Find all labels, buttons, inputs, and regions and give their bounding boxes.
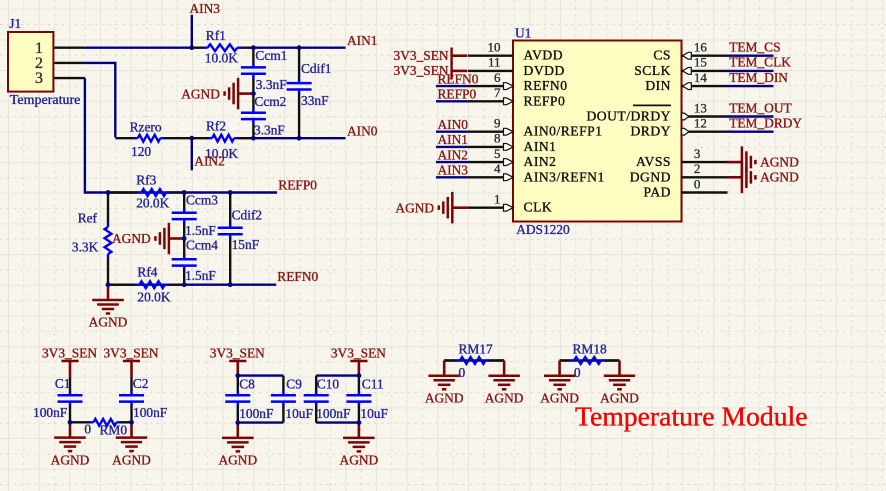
svg-text:RM17: RM17: [459, 342, 494, 357]
ground AGND right of RM17: [485, 361, 524, 406]
svg-text:REFN0: REFN0: [524, 78, 568, 93]
wire AIN2 stub: [191, 138, 193, 170]
svg-text:AIN1: AIN1: [524, 139, 557, 154]
wire REFP0 row left: [108, 191, 230, 193]
wire net AIN0 at U1: [436, 130, 468, 132]
power port 3V3_SEN at C2: [103, 345, 158, 377]
junction Cdif1 bottom: [297, 136, 302, 141]
pin 5 AIN2: [468, 146, 557, 169]
svg-text:100nF: 100nF: [133, 405, 167, 420]
capacitor Ccm4: [172, 238, 219, 285]
power port 3V3_SEN at C11: [331, 345, 386, 375]
svg-text:U1: U1: [515, 25, 531, 40]
svg-text:Ccm2: Ccm2: [254, 94, 286, 109]
svg-text:AIN3: AIN3: [190, 1, 221, 16]
net label TEM_OUT: [729, 100, 791, 115]
svg-text:AIN3: AIN3: [438, 163, 469, 178]
svg-text:Cdif2: Cdif2: [232, 208, 263, 223]
svg-text:CLK: CLK: [524, 200, 553, 215]
junction Rf2/Ccm2: [251, 136, 256, 141]
svg-text:Rf2: Rf2: [206, 118, 226, 133]
svg-text:3V3_SEN: 3V3_SEN: [331, 345, 386, 360]
svg-text:Temperature: Temperature: [10, 93, 81, 108]
svg-text:REFN0: REFN0: [438, 71, 479, 86]
svg-text:Ref: Ref: [78, 210, 98, 225]
svg-text:AGND: AGND: [340, 453, 379, 468]
junction C11 bottom: [357, 420, 362, 425]
svg-text:AGND: AGND: [181, 86, 220, 101]
wire RM18 row: [560, 359, 620, 361]
resistor Ref: [72, 193, 112, 285]
junction Ccm3 top: [182, 190, 187, 195]
svg-text:Ccm3: Ccm3: [186, 193, 218, 208]
svg-text:AGND: AGND: [112, 452, 151, 467]
svg-text:100nF: 100nF: [33, 405, 67, 420]
title Temperature Module: [575, 401, 808, 432]
svg-text:6: 6: [494, 70, 501, 85]
junction Rf1/Ccm1: [251, 45, 256, 50]
svg-text:15nF: 15nF: [232, 237, 260, 252]
svg-text:9: 9: [494, 116, 501, 131]
svg-text:Temperature Module: Temperature Module: [575, 401, 808, 432]
net label AIN0 at U1: [438, 117, 469, 132]
svg-text:3V3_SEN: 3V3_SEN: [42, 345, 97, 360]
svg-text:TEM_CS: TEM_CS: [729, 40, 780, 55]
pin 14 DIN: [645, 70, 727, 93]
svg-text:15: 15: [694, 55, 707, 70]
pin 1 CLK: [468, 192, 553, 215]
svg-text:DIN: DIN: [645, 78, 671, 93]
svg-text:REFP0: REFP0: [524, 93, 566, 108]
junction C1/RM01: [68, 420, 73, 425]
svg-text:AIN2: AIN2: [194, 154, 225, 169]
wire net TEM_CLK: [728, 70, 774, 72]
pin 8 AIN1: [468, 131, 557, 154]
svg-text:AGND: AGND: [395, 200, 434, 215]
svg-text:TEM_DRDY: TEM_DRDY: [729, 116, 802, 131]
svg-text:ADS1220: ADS1220: [516, 222, 570, 237]
svg-text:AGND: AGND: [89, 315, 128, 330]
svg-text:20.0K: 20.0K: [136, 196, 169, 211]
IC U1 ADS1220 body: [513, 25, 682, 237]
capacitor C2: [119, 376, 167, 423]
svg-text:REFP0: REFP0: [278, 178, 317, 193]
svg-text:10uF: 10uF: [360, 406, 388, 421]
wire net AIN3 at U1: [436, 176, 468, 178]
svg-text:AIN0: AIN0: [438, 117, 469, 132]
wire net REFP0 at U1: [436, 100, 468, 102]
junction AIN3/Rf1: [189, 45, 194, 50]
pin 6 REFN0: [468, 70, 568, 93]
ground AGND right of RM18: [600, 361, 639, 406]
svg-text:3.3K: 3.3K: [72, 239, 99, 254]
svg-text:C2: C2: [133, 376, 149, 391]
svg-text:DGND: DGND: [630, 169, 671, 184]
capacitor Ccm3: [172, 193, 219, 239]
net label AIN1: [347, 33, 378, 48]
svg-text:AIN2: AIN2: [524, 154, 557, 169]
capacitor C11: [346, 376, 388, 423]
pin 16 CS: [653, 40, 727, 63]
svg-text:AGND: AGND: [51, 452, 90, 467]
junction Cdif1 top: [297, 45, 302, 50]
svg-text:J1: J1: [9, 16, 21, 31]
junction C8 bottom: [235, 420, 240, 425]
svg-text:AIN3/REFN1: AIN3/REFN1: [524, 169, 605, 184]
svg-text:100nF: 100nF: [239, 406, 273, 421]
capacitor Cdif1: [287, 48, 332, 139]
wire RM17 row: [444, 359, 504, 361]
wire net AIN2 at U1: [436, 161, 468, 163]
power port 3V3_SEN at pin 11: [394, 63, 467, 79]
ground AGND under Ref: [89, 285, 128, 330]
svg-text:10uF: 10uF: [285, 406, 313, 421]
svg-text:TEM_DIN: TEM_DIN: [729, 70, 788, 85]
svg-text:AIN1: AIN1: [438, 132, 469, 147]
pin 12 DRDY: [630, 116, 727, 139]
svg-text:14: 14: [694, 70, 708, 85]
overline on DRDY of pin DOUT/DRDY: [633, 104, 671, 106]
resistor Rf1: [192, 28, 254, 66]
wire AIN3 stub: [191, 15, 193, 48]
resistor Rf3: [108, 172, 184, 210]
junction Rzero/Rf2/AIN2: [189, 136, 194, 141]
pin 2 DGND: [630, 161, 728, 184]
ground AGND under C2: [112, 422, 151, 467]
wire net REFN0 at U1: [436, 85, 468, 87]
svg-text:AVSS: AVSS: [636, 154, 671, 169]
pin 11 DVDD: [468, 55, 565, 78]
connector J1 pin 2: [54, 62, 85, 64]
svg-text:AGND: AGND: [540, 391, 579, 406]
svg-text:1: 1: [494, 192, 501, 207]
wire C8-C9 bottom rail: [238, 421, 284, 423]
svg-text:5: 5: [494, 146, 501, 161]
svg-text:SCLK: SCLK: [634, 63, 671, 78]
svg-text:AGND: AGND: [425, 391, 464, 406]
wire net TEM_OUT: [728, 115, 774, 117]
junction Cdif2 top: [228, 190, 233, 195]
pin 7 REFP0: [468, 85, 566, 108]
wire REFN0 row left: [108, 284, 230, 286]
svg-text:3V3_SEN: 3V3_SEN: [103, 345, 158, 360]
junction C2/RM01: [129, 420, 134, 425]
svg-text:Rf4: Rf4: [137, 264, 157, 279]
connector J1 pin 3: [54, 77, 85, 79]
svg-text:C10: C10: [317, 377, 340, 392]
svg-text:100nF: 100nF: [316, 406, 350, 421]
svg-text:Rzero: Rzero: [130, 120, 162, 135]
connector J1: [8, 16, 80, 108]
net label AIN0: [347, 123, 378, 138]
svg-text:C9: C9: [286, 377, 302, 392]
wire C10-C11 bottom rail: [316, 421, 359, 423]
svg-text:1.5nF: 1.5nF: [185, 223, 216, 238]
junction C8 top: [235, 373, 240, 378]
pin 0 PAD: [644, 176, 728, 199]
ground AGND under C11: [340, 423, 379, 468]
net label AIN3 at U1: [438, 163, 469, 178]
svg-text:16: 16: [694, 40, 708, 55]
wire REFP0 row right: [230, 191, 277, 193]
svg-text:REFN0: REFN0: [277, 269, 318, 284]
wire net TEM_DRDY: [728, 130, 774, 132]
svg-text:RM0: RM0: [100, 423, 128, 438]
svg-text:C11: C11: [362, 377, 384, 392]
svg-text:Rf1: Rf1: [206, 28, 226, 43]
net label REFP0: [278, 178, 317, 193]
svg-text:PAD: PAD: [644, 185, 671, 200]
svg-text:AGND: AGND: [760, 170, 799, 185]
svg-text:Cdif1: Cdif1: [301, 61, 332, 76]
svg-text:3V3_SEN: 3V3_SEN: [210, 345, 265, 360]
svg-text:AVDD: AVDD: [524, 48, 564, 63]
ground AGND at Ccm3/Ccm4: [112, 223, 184, 254]
resistor RM17: [444, 342, 504, 381]
capacitor Ccm2: [241, 94, 287, 139]
wire J1.1 to Rf1: [85, 47, 192, 49]
ground AGND under C1: [51, 422, 90, 467]
ground AGND at pin 1 CLK: [395, 192, 467, 224]
svg-text:10: 10: [488, 40, 501, 55]
capacitor C10: [304, 376, 351, 423]
svg-text:120: 120: [131, 144, 151, 159]
wire REFN0 row right: [230, 284, 276, 286]
svg-text:Ccm1: Ccm1: [255, 48, 287, 63]
pin 15 SCLK: [634, 55, 727, 78]
capacitor Cdif2: [218, 193, 262, 285]
svg-text:AIN1: AIN1: [347, 33, 378, 48]
junction Ccm1/Ccm2/AGND: [251, 91, 256, 96]
junction Ccm4 bottom: [182, 282, 187, 287]
ground AGND at Ccm1/Ccm2: [181, 78, 253, 110]
pin 9 AIN0/REFP1: [468, 116, 603, 139]
net label TEM_CLK: [729, 55, 791, 70]
svg-text:TEM_OUT: TEM_OUT: [729, 100, 791, 115]
svg-text:CS: CS: [653, 48, 671, 63]
svg-text:2: 2: [694, 161, 701, 176]
svg-text:1.5nF: 1.5nF: [185, 268, 216, 283]
svg-text:REFP0: REFP0: [438, 87, 477, 102]
resistor Rzero: [115, 120, 192, 160]
junction Ccm3/Ccm4/AGND: [182, 236, 187, 241]
wire AIN0 segment: [253, 137, 345, 139]
capacitor C9: [271, 376, 313, 423]
svg-text:3.3nF: 3.3nF: [256, 77, 287, 92]
net label AIN1 at U1: [438, 132, 469, 147]
svg-text:Rf3: Rf3: [136, 172, 156, 187]
svg-text:0: 0: [694, 176, 701, 191]
capacitor C8: [225, 376, 273, 423]
wire C10-C11 top rail: [316, 374, 359, 376]
svg-text:0: 0: [84, 421, 91, 436]
junction Ref top: [106, 190, 111, 195]
pin 13 DOUT/DRDY: [586, 100, 727, 123]
wire J1.2 down to Rzero: [85, 63, 115, 137]
resistor Rf4: [108, 264, 184, 304]
svg-text:3: 3: [35, 70, 43, 87]
svg-text:Ccm4: Ccm4: [186, 238, 218, 253]
junction Ref bottom: [106, 282, 111, 287]
svg-text:7: 7: [494, 85, 501, 100]
svg-text:DVDD: DVDD: [524, 63, 565, 78]
wire net AIN1 at U1: [436, 146, 468, 148]
wire J1.3 down to REFP0 row: [85, 78, 108, 192]
wire C8-C9 top rail: [238, 374, 284, 376]
ground AGND at pin 3 AVSS: [727, 146, 800, 178]
net label TEM_DIN: [729, 70, 788, 85]
ground AGND at pin 2 DGND: [727, 162, 800, 194]
junction C11 top: [357, 373, 362, 378]
svg-text:33nF: 33nF: [301, 93, 329, 108]
ground AGND left of RM17: [425, 361, 464, 406]
resistor Rf2: [192, 118, 254, 161]
svg-text:0: 0: [459, 365, 466, 380]
svg-text:4: 4: [494, 161, 501, 176]
svg-text:C1: C1: [55, 376, 71, 391]
power port 3V3_SEN at C1: [42, 345, 97, 377]
resistor RM18: [560, 342, 620, 381]
svg-text:AGND: AGND: [218, 453, 257, 468]
svg-text:10.0K: 10.0K: [205, 50, 238, 65]
resistor RM01: [70, 419, 132, 438]
svg-text:8: 8: [494, 131, 501, 146]
svg-text:AGND: AGND: [112, 231, 151, 246]
pin 3 AVSS: [636, 146, 728, 169]
power port 3V3_SEN at C8: [210, 345, 265, 375]
svg-text:12: 12: [694, 116, 707, 131]
wire net TEM_DIN: [728, 85, 774, 87]
svg-text:3: 3: [694, 146, 701, 161]
net label REFN0 at U1: [438, 71, 479, 86]
svg-text:DOUT/DRDY: DOUT/DRDY: [586, 109, 671, 124]
svg-text:20.0K: 20.0K: [137, 290, 170, 305]
svg-text:TEM_CLK: TEM_CLK: [729, 55, 791, 70]
net label REFN0: [277, 269, 318, 284]
svg-text:AGND: AGND: [485, 391, 524, 406]
pin 4 AIN3/REFN1: [468, 161, 605, 184]
svg-text:3V3_SEN: 3V3_SEN: [394, 48, 449, 63]
wire net TEM_CS: [728, 55, 774, 57]
connector J1 pin 1: [54, 47, 85, 49]
net label REFP0 at U1: [438, 87, 477, 102]
svg-text:AIN2: AIN2: [438, 147, 469, 162]
net label AIN3: [190, 1, 221, 16]
svg-text:DRDY: DRDY: [630, 124, 671, 139]
svg-text:0: 0: [574, 365, 581, 380]
net label AIN2 at U1: [438, 147, 469, 162]
ground AGND left of RM18: [540, 361, 579, 406]
power port 3V3_SEN at pin 10: [394, 48, 467, 64]
capacitor C1: [33, 376, 83, 423]
svg-text:C8: C8: [239, 377, 255, 392]
net label AIN2: [194, 154, 225, 169]
svg-text:RM18: RM18: [573, 342, 608, 357]
svg-text:13: 13: [694, 100, 707, 115]
svg-text:11: 11: [488, 55, 501, 70]
wire AIN1 segment: [253, 47, 345, 49]
net label TEM_DRDY: [729, 116, 802, 131]
svg-text:3.3nF: 3.3nF: [254, 123, 285, 138]
svg-text:AGND: AGND: [760, 154, 799, 169]
svg-text:AIN0/REFP1: AIN0/REFP1: [524, 124, 603, 139]
capacitor Ccm1: [241, 48, 288, 94]
junction Cdif2 bottom: [228, 282, 233, 287]
pin 10 AVDD: [468, 40, 563, 63]
ground AGND under C8: [218, 423, 257, 468]
net label TEM_CS: [729, 40, 780, 55]
svg-text:AIN0: AIN0: [347, 123, 378, 138]
